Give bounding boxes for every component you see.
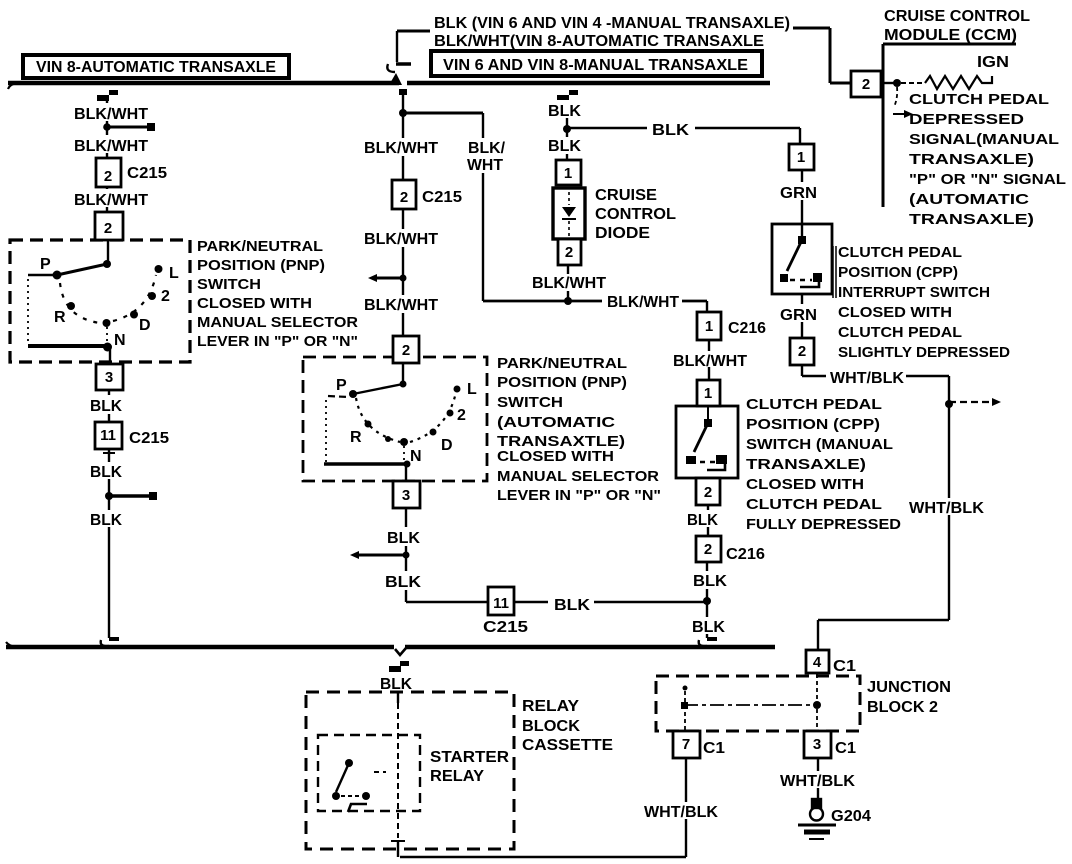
svg-text:RELAY: RELAY [430,768,484,785]
svg-text:C215: C215 [127,165,167,182]
svg-text:2: 2 [704,484,712,501]
svg-text:SWITCH: SWITCH [497,394,563,411]
svg-text:P: P [40,256,51,273]
svg-text:BLK: BLK [687,512,718,529]
svg-text:2: 2 [161,288,170,305]
svg-text:POSITION (CPP): POSITION (CPP) [746,416,880,433]
svg-text:11: 11 [100,427,116,444]
svg-text:BLK: BLK [380,676,412,693]
svg-text:SWITCH: SWITCH [197,276,261,293]
svg-text:2: 2 [704,541,712,558]
svg-text:CLOSED WITH: CLOSED WITH [746,476,864,493]
svg-text:2: 2 [457,407,466,424]
svg-text:WHT: WHT [467,157,503,174]
svg-text:BLK/WHT(VIN 8-AUTOMATIC TRANSA: BLK/WHT(VIN 8-AUTOMATIC TRANSAXLE [434,33,764,50]
svg-text:BLK/WHT: BLK/WHT [364,140,438,157]
svg-text:R: R [350,429,362,446]
svg-text:FULLY DEPRESSED: FULLY DEPRESSED [746,516,901,533]
svg-text:4: 4 [813,654,822,671]
svg-text:POSITION (PNP): POSITION (PNP) [197,257,325,274]
svg-text:CASSETTE: CASSETTE [522,737,613,754]
svg-text:SIGNAL(MANUAL: SIGNAL(MANUAL [909,131,1059,148]
svg-text:TRANSAXLE): TRANSAXLE) [746,456,866,473]
svg-text:C1: C1 [835,740,856,757]
svg-text:D: D [441,437,453,454]
svg-text:C216: C216 [728,320,766,337]
svg-text:BLK: BLK [693,573,727,590]
svg-text:C215: C215 [129,430,169,447]
svg-text:C216: C216 [726,546,765,563]
svg-text:LEVER IN "P" OR "N": LEVER IN "P" OR "N" [497,487,661,504]
svg-text:C1: C1 [833,658,856,675]
svg-text:VIN 8-AUTOMATIC TRANSAXLE: VIN 8-AUTOMATIC TRANSAXLE [36,59,276,76]
svg-text:BLK/WHT: BLK/WHT [74,138,148,155]
svg-text:BLK: BLK [548,103,581,120]
svg-text:BLK: BLK [90,398,122,415]
svg-text:PARK/NEUTRAL: PARK/NEUTRAL [197,238,323,255]
svg-text:POSITION (CPP): POSITION (CPP) [838,264,958,281]
svg-text:2: 2 [104,220,112,237]
svg-text:L: L [467,381,477,398]
svg-text:BLK: BLK [652,122,689,139]
svg-text:3: 3 [105,369,113,386]
svg-text:BLK: BLK [692,619,725,636]
svg-text:BLK: BLK [554,597,590,614]
svg-text:CLUTCH PEDAL: CLUTCH PEDAL [746,396,882,413]
svg-text:N: N [114,332,126,349]
svg-text:(AUTOMATIC: (AUTOMATIC [909,191,1029,208]
svg-text:C215: C215 [483,619,528,636]
svg-text:GRN: GRN [780,307,817,324]
svg-text:CRUISE: CRUISE [595,187,657,204]
svg-text:BLOCK: BLOCK [522,718,580,735]
svg-text:WHT/BLK: WHT/BLK [909,500,984,517]
svg-text:CLOSED WITH: CLOSED WITH [497,448,614,465]
svg-text:STARTER: STARTER [430,749,509,766]
svg-text:WHT/BLK: WHT/BLK [780,773,855,790]
svg-text:CLOSED WITH: CLOSED WITH [197,295,312,312]
svg-text:INTERRUPT SWITCH: INTERRUPT SWITCH [838,284,990,301]
svg-text:BLK (VIN 6 AND VIN 4 -MANUAL T: BLK (VIN 6 AND VIN 4 -MANUAL TRANSAXLE) [434,15,790,32]
svg-text:2: 2 [104,168,112,185]
svg-text:BLK: BLK [387,530,420,547]
svg-text:WHT/BLK: WHT/BLK [644,804,718,821]
svg-text:11: 11 [493,595,509,612]
svg-text:CLUTCH PEDAL: CLUTCH PEDAL [909,91,1049,108]
svg-text:IGN: IGN [977,54,1009,71]
svg-text:"P" OR "N" SIGNAL: "P" OR "N" SIGNAL [909,171,1066,188]
svg-text:1: 1 [705,318,713,335]
svg-text:3: 3 [402,487,410,504]
svg-text:POSITION (PNP): POSITION (PNP) [497,374,627,391]
svg-text:PARK/NEUTRAL: PARK/NEUTRAL [497,355,627,372]
svg-text:BLK/WHT: BLK/WHT [364,297,438,314]
svg-text:2: 2 [400,189,408,206]
svg-text:WHT/BLK: WHT/BLK [830,370,904,387]
svg-text:2: 2 [862,76,870,93]
svg-text:BLK: BLK [90,464,122,481]
svg-text:P: P [336,377,347,394]
svg-text:BLK/WHT: BLK/WHT [74,106,148,123]
svg-text:G204: G204 [831,808,871,825]
svg-text:(AUTOMATIC: (AUTOMATIC [497,414,615,431]
svg-text:BLK: BLK [385,574,421,591]
svg-text:BLK: BLK [90,512,122,529]
svg-text:MANUAL SELECTOR: MANUAL SELECTOR [197,314,358,331]
svg-text:MODULE (CCM): MODULE (CCM) [884,27,1017,44]
svg-text:CLOSED WITH: CLOSED WITH [838,304,952,321]
svg-text:CLUTCH PEDAL: CLUTCH PEDAL [746,496,882,513]
svg-text:C1: C1 [703,740,725,757]
svg-text:MANUAL SELECTOR: MANUAL SELECTOR [497,468,659,485]
svg-text:R: R [54,309,66,326]
svg-text:1: 1 [564,165,572,182]
svg-text:CONTROL: CONTROL [595,206,676,223]
svg-text:BLK/WHT: BLK/WHT [74,192,148,209]
svg-text:N: N [410,448,422,465]
svg-text:2: 2 [798,343,806,360]
svg-text:SLIGHTLY DEPRESSED: SLIGHTLY DEPRESSED [838,344,1010,361]
svg-text:3: 3 [813,736,821,753]
svg-text:2: 2 [565,244,573,261]
svg-text:VIN 6 AND VIN 8-MANUAL TRANSAX: VIN 6 AND VIN 8-MANUAL TRANSAXLE [443,57,748,74]
svg-text:D: D [139,317,151,334]
svg-text:SWITCH (MANUAL: SWITCH (MANUAL [746,436,893,453]
svg-text:1: 1 [704,385,712,402]
svg-text:BLOCK 2: BLOCK 2 [867,699,938,716]
svg-text:TRANSAXLE): TRANSAXLE) [909,211,1034,228]
svg-text:RELAY: RELAY [522,698,579,715]
svg-text:LEVER IN "P" OR "N": LEVER IN "P" OR "N" [197,333,358,350]
svg-text:JUNCTION: JUNCTION [867,679,951,696]
svg-text:BLK/WHT: BLK/WHT [673,353,747,370]
svg-text:C215: C215 [422,189,462,206]
svg-text:CLUTCH PEDAL: CLUTCH PEDAL [838,244,962,261]
svg-text:BLK: BLK [548,138,581,155]
svg-text:DEPRESSED: DEPRESSED [909,111,1024,128]
svg-text:DIODE: DIODE [595,225,650,242]
svg-text:BLK/WHT: BLK/WHT [364,231,438,248]
svg-text:2: 2 [402,342,410,359]
svg-text:1: 1 [797,149,805,166]
svg-text:CLUTCH PEDAL: CLUTCH PEDAL [838,324,962,341]
svg-text:BLK/WHT: BLK/WHT [532,275,606,292]
svg-text:TRANSAXLE): TRANSAXLE) [909,151,1034,168]
svg-text:BLK/: BLK/ [468,140,506,157]
svg-text:BLK/WHT: BLK/WHT [607,294,679,311]
svg-text:7: 7 [682,736,690,753]
svg-text:L: L [169,265,179,282]
svg-text:CRUISE CONTROL: CRUISE CONTROL [884,8,1030,25]
svg-text:GRN: GRN [780,185,817,202]
